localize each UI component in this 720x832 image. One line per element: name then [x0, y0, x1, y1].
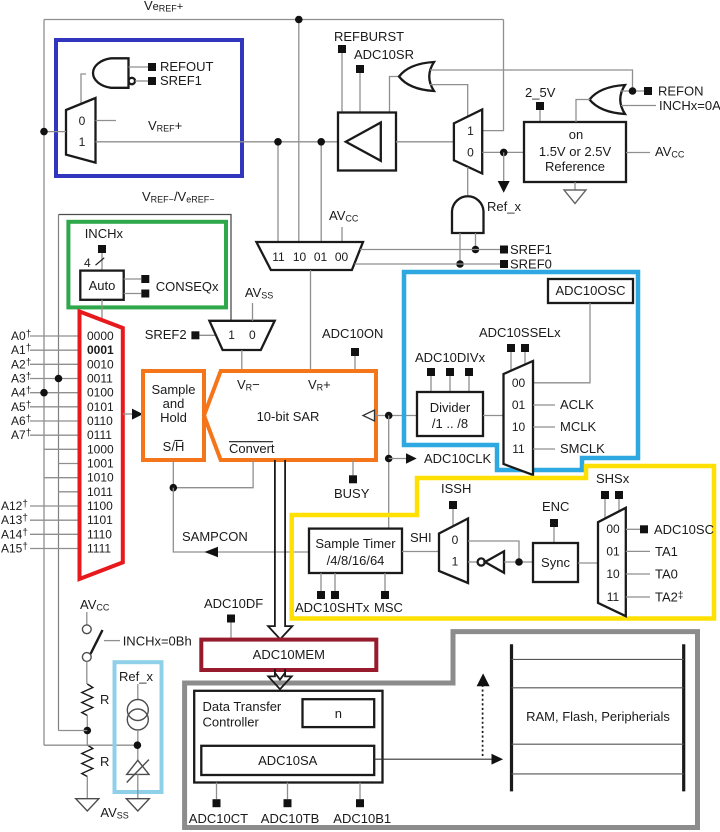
svg-text:SHI: SHI [410, 530, 432, 545]
resistor R upper [82, 684, 93, 716]
svg-text:00: 00 [335, 250, 349, 264]
pin ADC10TB [287, 783, 289, 800]
svg-text:0000: 0000 [87, 329, 114, 343]
wire SAR clock input [376, 415, 417, 417]
wire A15 input [30, 548, 80, 550]
svg-text:INCHx=0Ah: INCHx=0Ah [659, 98, 720, 113]
svg-text:00: 00 [512, 376, 526, 390]
svg-text:0100: 0100 [87, 386, 114, 400]
wire AVSS to mux input 0 [252, 303, 254, 321]
svg-text:Sync: Sync [541, 555, 570, 570]
svg-text:11: 11 [607, 590, 620, 604]
wire ref mux select from AND gate [467, 167, 469, 195]
svg-text:1: 1 [452, 555, 459, 569]
svg-text:ADC10SHTx: ADC10SHTx [295, 600, 370, 615]
svg-text:0001: 0001 [87, 343, 114, 357]
wire A2 input [30, 363, 80, 365]
memory rows [512, 658, 684, 660]
wire branch to big mux input 01 [320, 142, 322, 242]
svg-text:ACLK: ACLK [560, 397, 594, 412]
svg-text:0: 0 [467, 146, 474, 160]
svg-text:4: 4 [84, 256, 91, 270]
svg-text:01: 01 [314, 250, 328, 264]
wire REFOUT [129, 66, 149, 68]
wire A6 input [30, 420, 80, 422]
svg-text:11: 11 [272, 250, 285, 264]
box Ref_x (light blue) [115, 662, 162, 792]
wire to midpoint [86, 716, 88, 746]
wire AND input from SREF1 line [475, 233, 477, 250]
wire AVCC from reference box [626, 152, 650, 154]
wire diode to ground [137, 774, 139, 798]
box ADC10OSC [548, 279, 633, 303]
svg-text:0: 0 [452, 533, 459, 547]
box sample trigger (yellow) [292, 466, 714, 619]
svg-text:Data Transfer: Data Transfer [203, 699, 282, 714]
node junction dot left rail [40, 128, 48, 136]
svg-text:Sample Timer: Sample Timer [315, 536, 396, 551]
wire A12 input [30, 505, 80, 507]
svg-text:REFBURST: REFBURST [334, 29, 404, 44]
svg-text:REFOUT: REFOUT [160, 59, 214, 74]
mux ISSH polarity [439, 519, 468, 584]
svg-text:Ref_x: Ref_x [487, 199, 521, 214]
wire source to node [137, 730, 139, 760]
svg-text:ADC10DIVx: ADC10DIVx [415, 350, 486, 365]
shape 10-bit SAR (orange) [204, 371, 376, 460]
ground left [76, 799, 99, 811]
svg-text:and: and [163, 396, 185, 411]
mux VREF+ select 0/1 [66, 98, 96, 163]
svg-text:TA1: TA1 [655, 544, 678, 559]
resistor R lower [82, 745, 93, 777]
wire rail ch10 to Ref_x [44, 744, 137, 746]
box conversion control (green) [68, 222, 226, 308]
svg-text:MCLK: MCLK [560, 419, 596, 434]
wire sync to SHSx mux [578, 562, 598, 564]
wire VeREF+ right drop to ref mux input 1 [482, 20, 503, 131]
box sample and hold (orange) [143, 371, 204, 460]
box 1.5V/2.5V reference [524, 122, 626, 182]
svg-text:SMCLK: SMCLK [560, 441, 605, 456]
svg-text:S/H: S/H [163, 439, 185, 454]
box data transfer controller [194, 691, 382, 783]
wire clock down to sample timer [388, 416, 390, 529]
wire mux output VR+ [310, 270, 312, 371]
svg-text:10: 10 [606, 567, 620, 581]
switch INCHx=0Bh [86, 612, 88, 625]
svg-text:ADC10TB: ADC10TB [261, 811, 320, 826]
svg-text:1100: 1100 [87, 499, 113, 513]
wire ch11 divider input [59, 491, 80, 493]
wire Auto to channel mux [101, 300, 103, 320]
svg-text:10: 10 [293, 250, 307, 264]
svg-text:1111: 1111 [87, 542, 111, 556]
svg-text:0110: 0110 [87, 414, 113, 428]
wire A13 input [30, 519, 80, 521]
wire SREF1 [135, 80, 148, 82]
svg-text:1110: 1110 [87, 527, 112, 541]
pin MSC [384, 573, 386, 591]
svg-text:0111: 0111 [87, 428, 112, 442]
wire ch8 VeREF+ input [44, 448, 80, 450]
wire ACLK [533, 404, 555, 406]
wire A4 input [30, 392, 80, 394]
bubble inverter [478, 558, 485, 565]
mux clock source select [504, 361, 534, 475]
svg-text:BUSY: BUSY [334, 486, 370, 501]
svg-text:Divider: Divider [430, 400, 471, 415]
wire OR bottom input to ref mux select [430, 85, 468, 117]
mux vr- select 1/0 [209, 321, 274, 350]
svg-text:0101: 0101 [87, 400, 114, 414]
clock input triangle on SAR [363, 410, 375, 421]
gate AND refout [93, 58, 129, 88]
wire gate to vref mux select [81, 74, 86, 104]
wire mux output arrow to S/H [123, 413, 133, 415]
wire INCHx=0Ah input [621, 105, 656, 107]
svg-text:ADC10CT: ADC10CT [189, 811, 248, 826]
wire ref mux input 0 to reference box [482, 151, 524, 153]
wire REFON input [620, 90, 644, 92]
pin ADC10B1 [359, 783, 361, 800]
wire branch to big mux input 11 [277, 142, 279, 242]
pin REFON [644, 87, 652, 95]
svg-text:R: R [100, 754, 109, 769]
box n [303, 699, 375, 727]
svg-text:ADC10SSELx: ADC10SSELx [479, 325, 561, 340]
wire TA0 [626, 573, 650, 575]
svg-text:ADC10B1: ADC10B1 [333, 811, 391, 826]
svg-text:1101: 1101 [87, 513, 113, 527]
wire mux input 0 from sync [468, 541, 519, 562]
box sync [533, 543, 578, 582]
pin SREF1 [500, 246, 508, 254]
svg-text:SREF1: SREF1 [160, 73, 202, 88]
pin ADC10CT [216, 783, 218, 800]
wire ADC10SC [626, 528, 640, 530]
pin REFOUT [148, 63, 156, 71]
svg-text:/1 .. /8: /1 .. /8 [432, 416, 468, 431]
node junction dot top wire [295, 16, 303, 24]
svg-text:Reference: Reference [545, 159, 605, 174]
box Auto [80, 271, 123, 300]
svg-text:Ref_x: Ref_x [119, 669, 153, 684]
svg-text:ISSH: ISSH [441, 481, 471, 496]
pin BUSY [352, 460, 354, 475]
buffer reference buffer box [338, 113, 396, 171]
ground right [126, 799, 149, 811]
hollow arrow SAR to ADC10MEM [268, 460, 292, 639]
svg-text:1010: 1010 [87, 471, 114, 485]
wire label to source [137, 684, 139, 700]
svg-text:0010: 0010 [87, 357, 114, 371]
svg-text:SREF2: SREF2 [145, 327, 187, 342]
wire A14 input [30, 533, 80, 535]
svg-text:1: 1 [228, 328, 235, 342]
svg-text:/4/8/16/64: /4/8/16/64 [327, 553, 385, 568]
wire convert to sampcon node [173, 460, 253, 488]
svg-text:on: on [569, 127, 583, 142]
svg-text:1000: 1000 [87, 442, 114, 456]
hollow transfer arrow MEM to DTC [268, 669, 291, 689]
ground below reference box [574, 182, 576, 190]
gate OR refburst (mirrored) [399, 62, 434, 91]
svg-text:TA0: TA0 [655, 567, 678, 582]
wire buffer enable from OR gate [390, 77, 400, 113]
memory bus RAM left rail [510, 644, 513, 791]
wire A0 input [30, 335, 80, 337]
wire rail ch11 to midpoint [59, 730, 88, 732]
current source [127, 700, 148, 721]
wire ADC10OSC to mux input 00 [533, 303, 590, 383]
svg-text:1: 1 [467, 124, 474, 138]
svg-text:Sample: Sample [151, 382, 195, 397]
svg-text:INCHx: INCHx [85, 226, 124, 241]
buffer triangle [346, 123, 381, 161]
wire AND input from SREF0 line [459, 233, 461, 264]
wire TA1 [626, 550, 650, 552]
svg-text:CONSEQx: CONSEQx [156, 279, 219, 294]
svg-text:1011: 1011 [87, 485, 113, 499]
mux reference source select 11/10/01/00 [256, 242, 363, 270]
svg-text:1001: 1001 [87, 457, 114, 471]
mux input channel select (red) [80, 312, 123, 580]
box gray system area [185, 632, 698, 828]
inverter triangle [485, 551, 504, 573]
svg-text:INCHx=0Bh: INCHx=0Bh [123, 634, 192, 649]
svg-text:10: 10 [512, 420, 526, 434]
wire ADC10SA address arrow [374, 758, 492, 760]
svg-text:ADC10SC: ADC10SC [654, 522, 714, 537]
wire divider to clock mux [483, 415, 504, 417]
svg-text:11: 11 [512, 442, 525, 456]
svg-text:ADC10OSC: ADC10OSC [555, 283, 625, 298]
svg-text:Auto: Auto [89, 278, 116, 293]
svg-text:1.5V or 2.5V: 1.5V or 2.5V [539, 144, 612, 159]
pin SREF1 [148, 77, 156, 85]
svg-text:01: 01 [606, 545, 620, 559]
wire VeREF+ top horizontal [44, 19, 504, 21]
wire ADC10CLK arrow [389, 458, 406, 460]
wire VeREF+ left rail [43, 20, 45, 746]
svg-text:SAMPCON: SAMPCON [182, 529, 248, 544]
pin SREF0 [500, 260, 508, 268]
svg-text:01: 01 [512, 398, 526, 412]
svg-text:ENC: ENC [542, 499, 569, 514]
bus slash [96, 258, 105, 265]
bubble SREF1 inverter [129, 78, 135, 84]
wire A1 input [30, 349, 80, 351]
wire OR refon output to reference box enable [576, 100, 590, 123]
mux reference select 1/0 [454, 110, 482, 174]
svg-text:SREF0: SREF0 [510, 257, 552, 272]
wire mux output VR- [241, 350, 243, 371]
svg-text:Convert: Convert [229, 441, 275, 456]
svg-text:ADC10SR: ADC10SR [354, 47, 414, 62]
overline on Convert [229, 441, 273, 443]
overline on H of S/H [175, 440, 183, 442]
wire mux output to left rail [44, 131, 66, 133]
box ADC10SA [201, 746, 374, 775]
svg-text:ADC10MEM: ADC10MEM [253, 647, 325, 662]
svg-text:SHSx: SHSx [596, 471, 630, 486]
wire Ref_x down arrow [503, 152, 505, 182]
wire VREF- net path [59, 215, 232, 321]
wire ch9 VREF- input [59, 463, 80, 465]
wire SMCLK [533, 448, 555, 450]
box reference-output logic (blue) [56, 40, 242, 176]
wire ch10 temp input [44, 477, 80, 479]
memory bus RAM right rail [682, 644, 685, 791]
svg-text:1: 1 [79, 135, 86, 149]
svg-text:RAM, Flash, Peripherials: RAM, Flash, Peripherials [526, 709, 670, 724]
wire A7 input [30, 434, 80, 436]
wire VREF+ line to buffer [96, 141, 339, 143]
wire to ground [86, 777, 88, 799]
mux trigger select SHSx [598, 508, 626, 616]
wire VeREF+ branch to big mux input 10 [298, 20, 300, 243]
wire A5 input [30, 406, 80, 408]
wire MCLK [533, 426, 555, 428]
svg-text:Controller: Controller [203, 715, 260, 730]
svg-text:0011: 0011 [87, 372, 113, 386]
svg-text:REFON: REFON [658, 84, 704, 99]
wire sync output [504, 561, 533, 563]
box ADC10MEM (maroon) [201, 640, 376, 670]
gate OR refon (mirrored) [590, 85, 626, 114]
wire SREF0 select line [355, 263, 501, 265]
wire buffered VREF to ref mux [396, 141, 454, 143]
dotted arrow DTC to RAM [482, 686, 484, 756]
svg-text:0: 0 [79, 114, 86, 128]
wire mux input 1 from inverter [468, 561, 478, 563]
svg-text:ADC10CLK: ADC10CLK [424, 451, 492, 466]
svg-text:SREF1: SREF1 [510, 242, 552, 257]
svg-text:ADC10ON: ADC10ON [322, 326, 383, 341]
svg-text:2_5V: 2_5V [525, 85, 556, 100]
svg-text:ADC10SA: ADC10SA [258, 753, 318, 768]
svg-text:Hold: Hold [160, 410, 187, 425]
wire VREF- left rail [58, 215, 60, 731]
wire SAMPCON [173, 488, 309, 552]
svg-text:MSC: MSC [374, 600, 403, 615]
svg-text:00: 00 [606, 522, 620, 536]
wire to resistor [86, 661, 88, 684]
pin ADC10SHTx [320, 573, 322, 591]
wire TA2 [626, 596, 650, 598]
box divider [417, 392, 483, 436]
svg-text:10-bit SAR: 10-bit SAR [257, 409, 320, 424]
box sample timer [309, 529, 402, 573]
svg-text:0: 0 [249, 328, 256, 342]
wire stub mux input 0 [96, 120, 117, 122]
wire INCHx bus to Auto [101, 253, 103, 271]
wire SREF1 select line [360, 249, 500, 251]
svg-text:ADC10DF: ADC10DF [204, 596, 263, 611]
wire OR top input / REFON net [430, 70, 633, 91]
box clock select (cyan) [404, 272, 638, 470]
wire CONSEQx pins [124, 278, 141, 280]
svg-text:n: n [335, 706, 342, 721]
wire A3 input [30, 378, 80, 380]
diode temp sensor [127, 760, 149, 774]
gate AND sref [452, 196, 484, 233]
svg-text:R: R [100, 692, 109, 707]
wire S/H to sampcon node [172, 460, 174, 488]
